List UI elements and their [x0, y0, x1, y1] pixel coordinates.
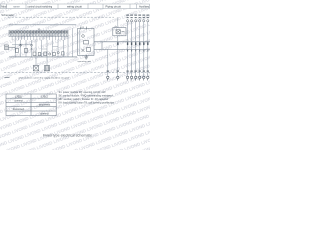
contact circle A — [20, 44, 22, 46]
contact circle B — [31, 44, 33, 46]
middle box QF — [78, 29, 95, 56]
QF aux contact — [87, 48, 91, 52]
transformer T1 — [33, 66, 38, 71]
svg-text:KA: load closing button TA: c: KA: load closing button TA: coil opening… — [59, 102, 115, 105]
transformer T2 — [44, 66, 49, 71]
QF inner wire — [79, 30, 81, 55]
aux contact X2 — [31, 48, 33, 50]
QF contact block — [84, 41, 89, 45]
svg-text:connect: connect — [40, 112, 49, 115]
terminal row2 ticks — [10, 34, 67, 37]
feeder bottom labels — [107, 71, 149, 72]
coil K2 — [25, 48, 28, 52]
wire stub 4x-top — [117, 17, 119, 27]
legend text block — [59, 91, 115, 105]
dashed enclosure top line — [8, 16, 114, 18]
svg-text:Piping circuit: Piping circuit — [106, 4, 121, 8]
svg-text:name: name — [13, 5, 20, 8]
svg-text:Fixed type electrical schemati: Fixed type electrical schematic — [43, 134, 92, 138]
battery component left — [5, 45, 16, 50]
svg-text:disconnect: disconnect — [39, 104, 51, 107]
aux contact X1 — [20, 44, 22, 46]
header bar labels — [1, 4, 150, 8]
svg-text:L70(.2: L70(.2 — [41, 95, 48, 98]
legend table — [6, 94, 56, 116]
svg-text:Auxiliary: Auxiliary — [139, 4, 150, 8]
svg-text:operating unit: operating unit — [78, 60, 92, 63]
relay circle C3 — [57, 52, 59, 54]
header bar — [1, 4, 150, 9]
transformer T1 drop — [35, 57, 37, 66]
QF top ticks — [81, 27, 87, 30]
bus wire — [9, 56, 77, 58]
relay box B4 — [62, 52, 65, 55]
drop wire x108 — [107, 49, 109, 76]
ground — [84, 55, 88, 59]
legend table texts — [13, 95, 51, 115]
QF coil circle — [82, 35, 85, 38]
svg-text:wiring circuit: wiring circuit — [67, 4, 82, 8]
feeder top labels — [126, 15, 149, 19]
drop wire x118 — [117, 36, 119, 76]
terminal strip cell text blobs — [10, 31, 68, 32]
coil K1 — [16, 48, 19, 52]
feeder bottom connectors — [107, 76, 149, 80]
control wire row — [12, 44, 32, 46]
top bus wire — [9, 24, 77, 26]
watermark — [0, 0, 247, 240]
long drop wires — [15, 28, 72, 57]
QF breaker X — [82, 49, 85, 52]
right feeder lines — [128, 22, 148, 76]
svg-text:control circuit switching: control circuit switching — [28, 5, 53, 8]
comb drop wires — [12, 37, 65, 40]
wire jog — [101, 42, 103, 50]
svg-text:U: U — [38, 28, 40, 31]
terminal strip table — [9, 30, 68, 36]
svg-text:connect: connect — [14, 100, 23, 103]
note dash — [5, 77, 10, 79]
wire stub s2 — [53, 46, 59, 48]
svg-text:L70(1): L70(1) — [15, 95, 22, 98]
svg-text:when in direct current the sup: when in direct current the supply should… — [19, 76, 70, 79]
wire stub s1 — [42, 48, 48, 50]
relay cluster — [33, 52, 55, 56]
dashed enclosure bottom line — [4, 72, 150, 74]
svg-text:Schematic: Schematic — [1, 13, 14, 17]
feeder junction blobs — [117, 42, 148, 45]
svg-text:Mod: Mod — [1, 4, 7, 8]
svg-text:disconnect: disconnect — [13, 108, 25, 111]
transformer T2 drop — [46, 57, 48, 66]
feeder top terminals — [127, 20, 149, 22]
wire W2 — [94, 48, 150, 50]
wire W1 — [94, 41, 150, 43]
top-right box 4x — [113, 28, 126, 36]
4x inner component — [116, 30, 125, 34]
feeder junction blobs W2 — [127, 50, 148, 52]
